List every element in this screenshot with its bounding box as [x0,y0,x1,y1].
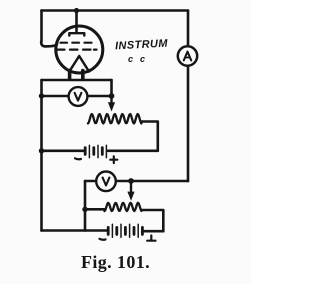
voltmeter M1 [69,87,88,106]
label B2 plus (perp mark) [147,236,155,241]
wire filament bus [42,79,112,82]
node plate-lead junction on top bus [74,8,79,13]
caption Fig. 101. [0,252,231,273]
wire battery B2 right lead [144,230,164,233]
tube V1 envelope [56,26,103,73]
wire stage-2 left vertical [84,181,87,231]
node wiper-2 junction [128,178,134,184]
tube V1 filament triangle [69,56,89,72]
wire left grid-loop vertical [40,11,43,42]
wire battery B1 right lead [108,150,158,153]
ammeter M3 [178,46,197,65]
wiper arrow into rheostat R2 [127,181,134,201]
battery B2 cells [108,224,142,237]
wire filament-bus right hook down [110,80,113,96]
wire top bus from grid loop to ammeter branch [42,9,189,12]
wire main left vertical [40,80,43,231]
tube V1 plate bar [69,33,84,35]
wire right vertical bottom (ammeter to plate-return) [187,66,190,181]
wire R2 right lead [141,210,163,231]
wire battery B1 left lead [42,150,85,153]
wire grid lead hook into tube [41,42,57,47]
wire bottom bus / battery B2 left lead [42,229,108,232]
wire R2 left lead [85,208,105,211]
wire R1 right lead [141,122,157,151]
label B1 minus [75,157,81,160]
node left-vertical / V-M1 branch junction [39,93,44,98]
tube V1 base stubs [70,71,83,80]
node V-M1 branch right junction [109,93,115,99]
battery B1 cells [85,145,106,157]
label c c [128,54,150,64]
voltmeter M2 [96,172,116,192]
wire right vertical top (bus to ammeter) [187,11,190,47]
rheostat R1 winding [88,114,141,123]
node left-vertical / B1 junction [39,148,44,153]
node stage-2 vertical / R2 lead junction [82,207,87,212]
wire voltmeter V-M1 branch [42,95,112,98]
label B1 plus [110,156,117,163]
label INSTRUM [115,38,168,53]
wire plate lead [75,11,78,32]
wiper arrow into rheostat R1 [108,96,115,112]
rheostat R2 winding [105,203,142,211]
wire plate-return / voltmeter V-M2 branch [85,180,188,183]
tube V1 grid dashes row 1 [61,42,92,44]
label B2 minus [100,238,106,241]
tube V1 grid dashes row 2 [58,48,97,50]
